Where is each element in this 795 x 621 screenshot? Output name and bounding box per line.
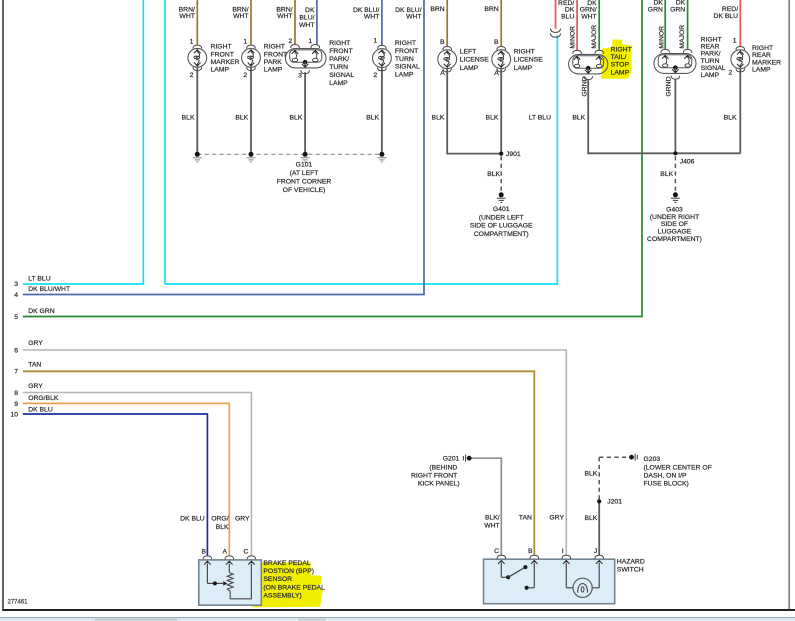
svg-text:MAJOR: MAJOR bbox=[679, 25, 686, 49]
svg-text:J: J bbox=[594, 548, 597, 555]
svg-text:WHT: WHT bbox=[233, 13, 248, 20]
svg-text:A: A bbox=[223, 548, 228, 555]
svg-text:1: 1 bbox=[373, 38, 377, 45]
svg-text:POSTION (BPP): POSTION (BPP) bbox=[263, 568, 314, 575]
svg-text:LAMP: LAMP bbox=[264, 67, 283, 74]
svg-text:(UNDER RIGHT: (UNDER RIGHT bbox=[650, 214, 699, 221]
svg-text:9: 9 bbox=[14, 401, 18, 408]
svg-text:BLK: BLK bbox=[216, 524, 229, 531]
svg-text:COMPARTMENT): COMPARTMENT) bbox=[474, 231, 529, 238]
svg-text:FRONT: FRONT bbox=[329, 48, 352, 55]
svg-text:SIGNAL: SIGNAL bbox=[329, 72, 354, 79]
svg-text:LT BLU: LT BLU bbox=[28, 275, 51, 282]
svg-text:BLK: BLK bbox=[660, 171, 673, 178]
svg-text:BLK: BLK bbox=[432, 114, 445, 121]
svg-text:WHT: WHT bbox=[299, 22, 314, 29]
svg-text:TURN: TURN bbox=[395, 56, 414, 63]
svg-text:OF VEHICLE): OF VEHICLE) bbox=[283, 187, 326, 194]
svg-text:BLU: BLU bbox=[561, 13, 574, 20]
svg-text:HAZARD: HAZARD bbox=[617, 559, 645, 566]
svg-text:(UNDER LEFT: (UNDER LEFT bbox=[479, 214, 524, 221]
svg-text:I: I bbox=[562, 548, 564, 555]
svg-text:B: B bbox=[201, 548, 206, 555]
svg-text:1: 1 bbox=[733, 38, 737, 45]
svg-text:SIDE OF: SIDE OF bbox=[661, 221, 688, 228]
svg-text:J406: J406 bbox=[680, 159, 695, 166]
svg-text:LAMP: LAMP bbox=[514, 65, 533, 72]
svg-text:LAMP: LAMP bbox=[611, 69, 630, 76]
svg-text:(ON BRAKE PEDAL: (ON BRAKE PEDAL bbox=[263, 584, 325, 591]
svg-text:FRONT: FRONT bbox=[395, 48, 418, 55]
svg-text:G201: G201 bbox=[443, 456, 460, 463]
svg-text:(BEHIND: (BEHIND bbox=[429, 464, 457, 471]
svg-text:2: 2 bbox=[729, 70, 733, 77]
svg-text:(AT LEFT: (AT LEFT bbox=[290, 170, 319, 177]
svg-text:BRN: BRN bbox=[430, 6, 444, 13]
svg-text:LAMP: LAMP bbox=[460, 65, 479, 72]
svg-text:GRY: GRY bbox=[28, 383, 43, 390]
svg-text:WHT: WHT bbox=[364, 14, 379, 21]
svg-text:TAN: TAN bbox=[519, 515, 532, 522]
svg-text:BLK/: BLK/ bbox=[485, 515, 500, 522]
svg-text:DK: DK bbox=[305, 7, 315, 14]
svg-text:LAMP: LAMP bbox=[701, 72, 720, 79]
svg-text:G401: G401 bbox=[493, 206, 510, 213]
svg-text:LICENSE: LICENSE bbox=[514, 57, 544, 64]
svg-text:PARK: PARK bbox=[264, 59, 282, 66]
svg-text:MINOR: MINOR bbox=[569, 26, 576, 49]
svg-text:2: 2 bbox=[288, 38, 292, 45]
svg-text:ASSEMBLY): ASSEMBLY) bbox=[263, 593, 301, 600]
svg-text:SENSOR: SENSOR bbox=[263, 576, 292, 583]
svg-text:REAR: REAR bbox=[752, 52, 771, 59]
svg-text:RIGHT: RIGHT bbox=[329, 40, 350, 47]
svg-text:DK GRN: DK GRN bbox=[28, 308, 55, 315]
svg-text:SIDE OF LUGGAGE: SIDE OF LUGGAGE bbox=[470, 223, 533, 230]
svg-text:LT BLU: LT BLU bbox=[529, 114, 552, 121]
svg-text:SIGNAL: SIGNAL bbox=[395, 64, 420, 71]
svg-text:C: C bbox=[243, 548, 248, 555]
svg-text:LAMP: LAMP bbox=[395, 72, 414, 79]
svg-text:RIGHT: RIGHT bbox=[514, 48, 535, 55]
svg-text:TURN: TURN bbox=[329, 64, 348, 71]
svg-text:REAR: REAR bbox=[701, 44, 720, 51]
svg-text:BLK: BLK bbox=[584, 470, 597, 477]
svg-text:COMPARTMENT): COMPARTMENT) bbox=[647, 236, 702, 243]
svg-text:DASH, ON I/P: DASH, ON I/P bbox=[644, 472, 688, 479]
svg-text:BLU/: BLU/ bbox=[299, 15, 314, 22]
svg-text:FRONT: FRONT bbox=[264, 51, 287, 58]
svg-text:TAIL/: TAIL/ bbox=[611, 54, 627, 61]
svg-text:GRND: GRND bbox=[666, 76, 673, 96]
svg-text:PARK/: PARK/ bbox=[329, 56, 349, 63]
svg-text:7: 7 bbox=[14, 369, 18, 376]
svg-text:BRAKE PEDAL: BRAKE PEDAL bbox=[263, 560, 310, 567]
svg-text:GRY: GRY bbox=[235, 516, 250, 523]
svg-text:LUGGAGE: LUGGAGE bbox=[658, 229, 692, 236]
svg-text:WHT: WHT bbox=[406, 14, 421, 21]
svg-text:FRONT: FRONT bbox=[211, 51, 234, 58]
svg-text:3: 3 bbox=[14, 281, 18, 288]
svg-text:J201: J201 bbox=[607, 499, 622, 506]
svg-text:G203: G203 bbox=[644, 456, 661, 463]
svg-text:FRONT CORNER: FRONT CORNER bbox=[277, 179, 332, 186]
svg-text:1: 1 bbox=[308, 38, 312, 45]
svg-text:RIGHT: RIGHT bbox=[211, 44, 232, 51]
svg-text:PARK/: PARK/ bbox=[701, 51, 721, 58]
svg-text:ORG/BLK: ORG/BLK bbox=[28, 395, 59, 402]
svg-text:BLK: BLK bbox=[235, 114, 248, 121]
svg-text:LAMP: LAMP bbox=[329, 80, 348, 87]
svg-text:SWITCH: SWITCH bbox=[617, 566, 644, 573]
svg-text:G101: G101 bbox=[296, 162, 313, 169]
svg-text:5: 5 bbox=[14, 314, 18, 321]
svg-text:STOP: STOP bbox=[611, 62, 630, 69]
svg-text:SIGNAL: SIGNAL bbox=[701, 65, 726, 72]
svg-text:BLK: BLK bbox=[724, 114, 737, 121]
svg-text:BLK: BLK bbox=[584, 515, 597, 522]
svg-text:BLK: BLK bbox=[366, 114, 379, 121]
svg-text:WHT: WHT bbox=[581, 13, 596, 20]
svg-text:G403: G403 bbox=[666, 206, 683, 213]
svg-text:MINOR: MINOR bbox=[659, 26, 666, 49]
svg-text:WHT: WHT bbox=[484, 523, 499, 530]
svg-text:TURN: TURN bbox=[701, 58, 720, 65]
svg-text:WHT: WHT bbox=[277, 13, 292, 20]
svg-text:1: 1 bbox=[243, 39, 247, 46]
svg-text:WHT: WHT bbox=[179, 13, 194, 20]
svg-text:MAJOR: MAJOR bbox=[591, 25, 598, 49]
svg-text:GRND: GRND bbox=[581, 76, 588, 96]
svg-text:LAMP: LAMP bbox=[211, 67, 230, 74]
svg-text:B: B bbox=[528, 548, 533, 555]
svg-text:RIGHT: RIGHT bbox=[264, 44, 285, 51]
svg-text:DK BLU: DK BLU bbox=[28, 407, 53, 414]
svg-text:BLK: BLK bbox=[182, 114, 195, 121]
svg-text:6: 6 bbox=[14, 347, 18, 354]
svg-text:B: B bbox=[494, 39, 499, 46]
svg-text:1: 1 bbox=[190, 39, 194, 46]
svg-text:10: 10 bbox=[10, 412, 18, 419]
svg-text:DK BLU: DK BLU bbox=[714, 13, 739, 20]
svg-text:GRY: GRY bbox=[28, 340, 43, 347]
svg-text:RIGHT: RIGHT bbox=[701, 36, 722, 43]
svg-text:A: A bbox=[494, 70, 499, 77]
svg-text:4: 4 bbox=[14, 292, 18, 299]
svg-text:LICENSE: LICENSE bbox=[460, 57, 490, 64]
svg-text:MARKER: MARKER bbox=[211, 59, 240, 66]
svg-text:B: B bbox=[440, 39, 445, 46]
svg-text:(LOWER CENTER OF: (LOWER CENTER OF bbox=[644, 464, 712, 471]
svg-text:DK BLU/WHT: DK BLU/WHT bbox=[28, 286, 70, 293]
svg-text:8: 8 bbox=[14, 390, 18, 397]
svg-text:2: 2 bbox=[190, 72, 194, 79]
svg-text:BLK: BLK bbox=[487, 171, 500, 178]
svg-text:GRN: GRN bbox=[648, 7, 663, 14]
svg-text:2: 2 bbox=[243, 72, 247, 79]
svg-text:J901: J901 bbox=[506, 151, 521, 158]
svg-text:A: A bbox=[440, 70, 445, 77]
svg-text:3: 3 bbox=[298, 72, 302, 79]
svg-text:2: 2 bbox=[373, 72, 377, 79]
svg-text:BLK: BLK bbox=[572, 114, 585, 121]
svg-text:KICK PANEL): KICK PANEL) bbox=[418, 480, 460, 487]
svg-text:MARKER: MARKER bbox=[752, 59, 781, 66]
svg-text:277461: 277461 bbox=[8, 599, 29, 605]
svg-text:ORG/: ORG/ bbox=[211, 516, 228, 523]
svg-text:FUSE BLOCK): FUSE BLOCK) bbox=[644, 481, 689, 488]
svg-text:GRY: GRY bbox=[549, 515, 564, 522]
svg-text:C: C bbox=[494, 548, 499, 555]
svg-text:BRN: BRN bbox=[484, 6, 498, 13]
svg-text:TAN: TAN bbox=[28, 361, 41, 368]
svg-text:RIGHT: RIGHT bbox=[611, 46, 632, 53]
svg-text:RIGHT: RIGHT bbox=[395, 40, 416, 47]
svg-text:LAMP: LAMP bbox=[752, 67, 771, 74]
svg-text:GRN: GRN bbox=[670, 7, 685, 14]
svg-text:RIGHT FRONT: RIGHT FRONT bbox=[411, 472, 457, 479]
svg-text:BLK: BLK bbox=[486, 114, 499, 121]
svg-text:BLK: BLK bbox=[289, 114, 302, 121]
svg-text:LEFT: LEFT bbox=[460, 48, 477, 55]
svg-text:DK BLU: DK BLU bbox=[180, 516, 205, 523]
svg-text:RIGHT: RIGHT bbox=[752, 45, 773, 52]
